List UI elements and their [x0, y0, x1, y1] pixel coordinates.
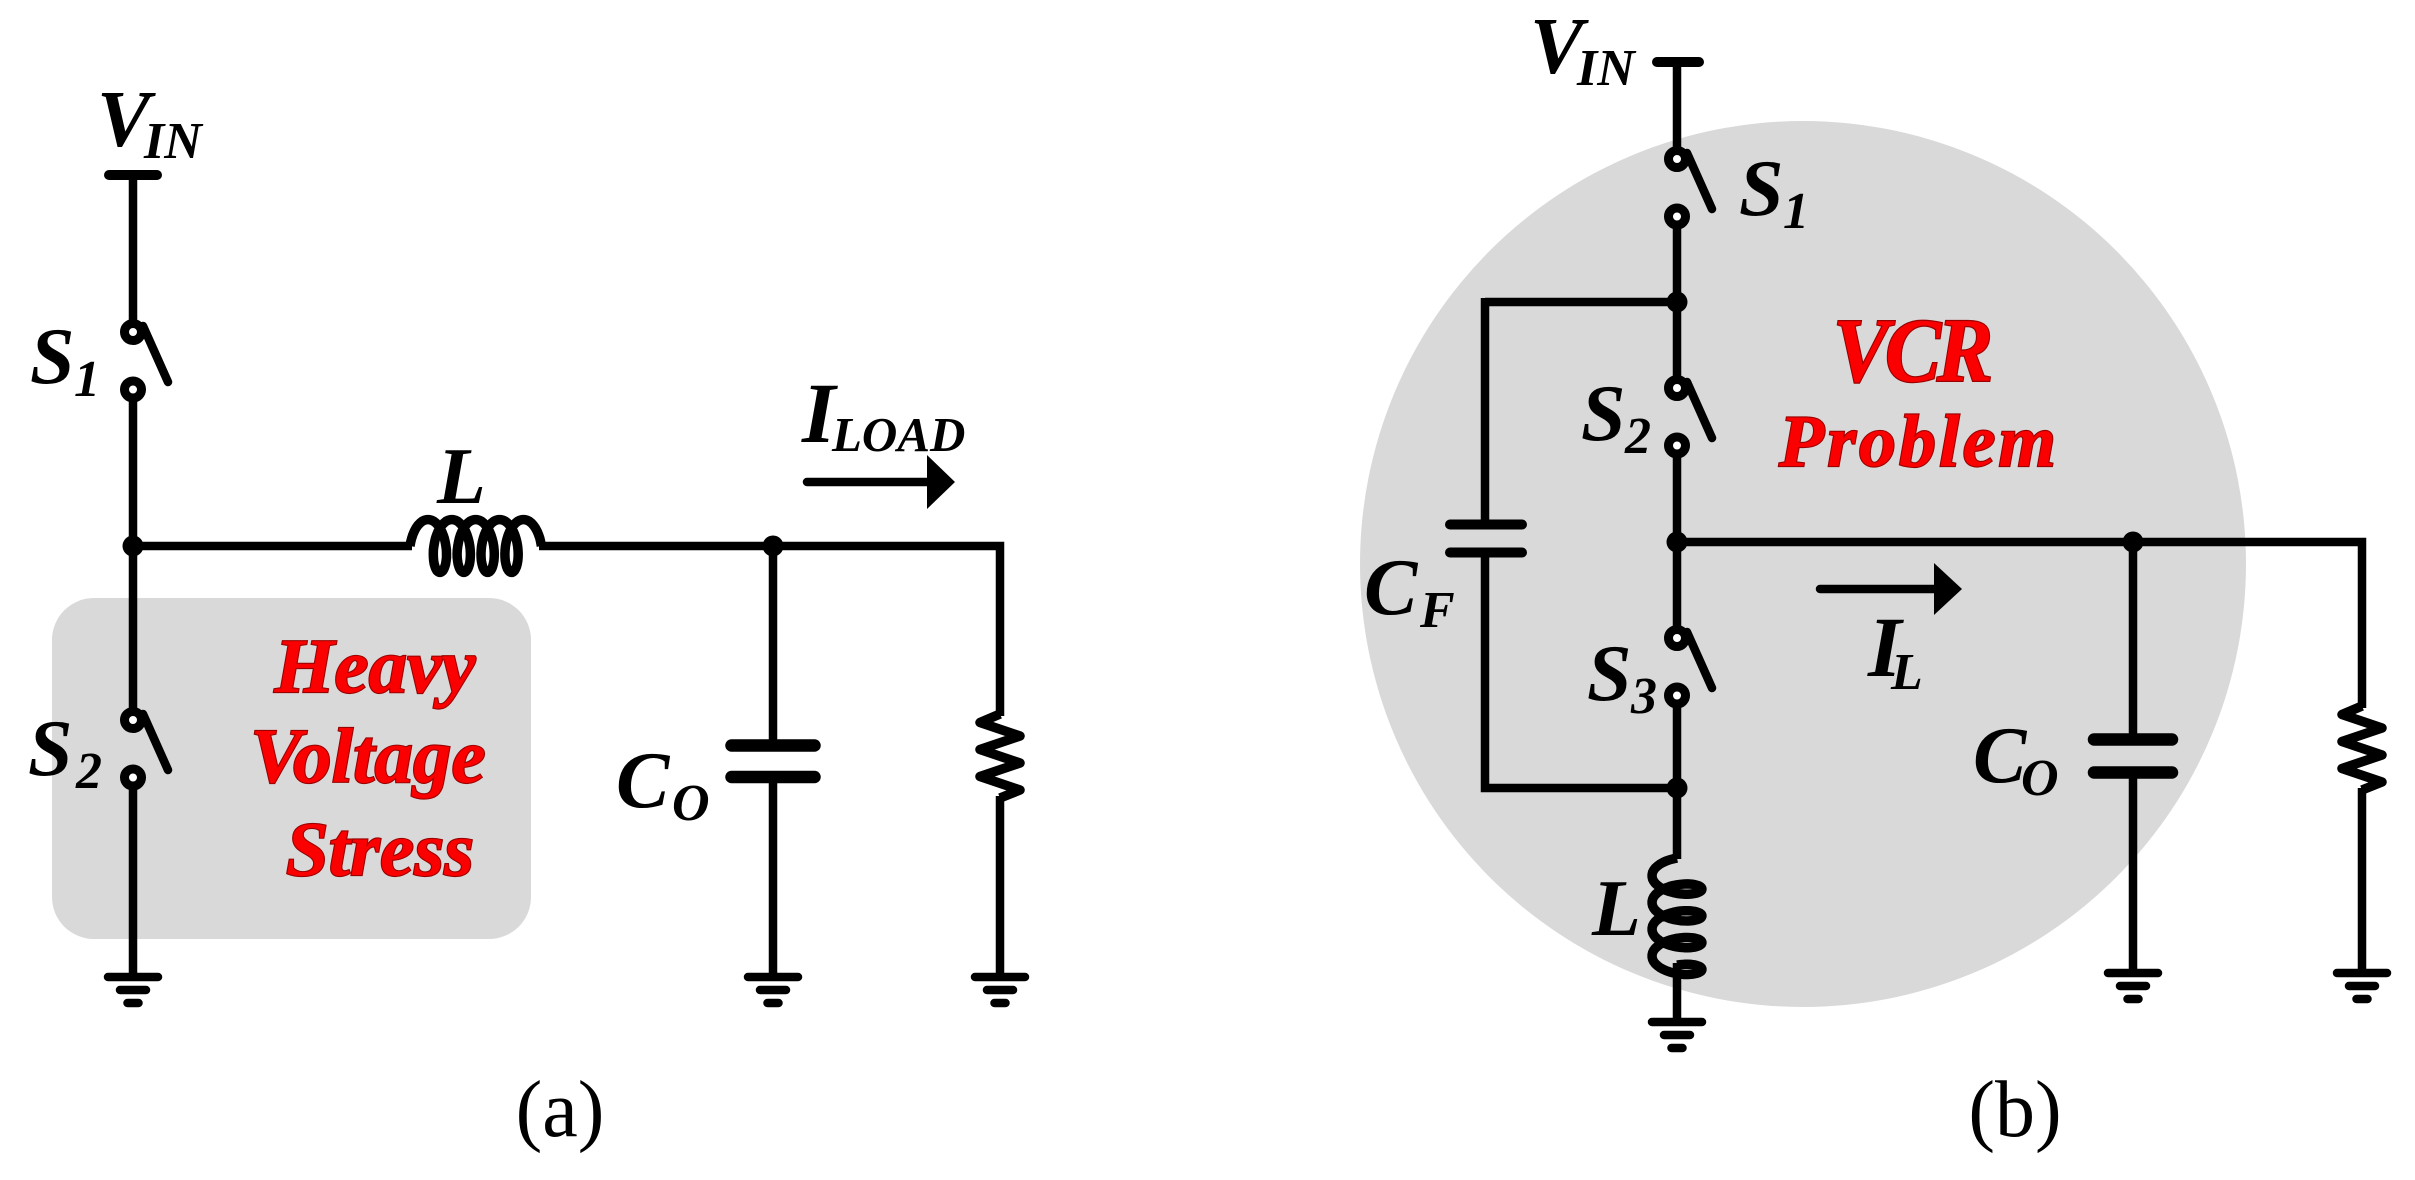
svg-text:S: S: [1587, 630, 1632, 718]
load resistor R (a): [980, 714, 1020, 798]
svg-text:F: F: [1419, 582, 1455, 639]
wire Cf bottom branch (b): [1485, 557, 1677, 788]
svg-text:(b): (b): [1968, 1066, 2061, 1154]
svg-text:(a): (a): [516, 1066, 605, 1154]
ground under L (b): [1652, 1018, 1702, 1027]
svg-text:Stress: Stress: [286, 806, 474, 892]
node A junction dot (b): [1667, 292, 1688, 313]
switch S1 (a): [143, 326, 168, 382]
svg-text:1: 1: [74, 351, 100, 408]
wire S2 to output node (b): [1673, 452, 1682, 546]
ground under R (b): [2337, 969, 2387, 978]
node LX junction dot (a): [123, 536, 144, 557]
ground under S2 (a): [108, 973, 158, 982]
svg-text:IN: IN: [1576, 40, 1637, 97]
svg-text:LOAD: LOAD: [831, 407, 965, 462]
wire Co branch (b): [2129, 542, 2138, 735]
wire Co to ground (a): [769, 782, 778, 975]
svg-text:O: O: [672, 775, 710, 832]
wire resistor to ground (b): [2358, 788, 2367, 971]
svg-text:Problem: Problem: [1778, 401, 2059, 483]
Iload arrow (a): [807, 478, 929, 487]
IL arrow (b): [1820, 585, 1936, 594]
wire Cf top branch (b): [1481, 298, 1490, 520]
output node junction dot (b): [1667, 532, 1688, 553]
svg-text:Voltage: Voltage: [250, 713, 485, 799]
switch S3 (b): [1687, 632, 1712, 688]
wire inductor to ground (b): [1673, 963, 1682, 1020]
wire S1 to node A (b): [1673, 223, 1682, 306]
svg-text:2: 2: [1624, 408, 1651, 465]
wire resistor to ground (a): [996, 796, 1005, 975]
capacitor Cf plates (b): [1450, 520, 1522, 530]
svg-text:S: S: [30, 313, 75, 401]
svg-text:L: L: [1591, 865, 1641, 953]
svg-text:VCR: VCR: [1833, 301, 1991, 402]
wire S2 to ground (a): [129, 784, 138, 975]
wire inductor to output node (a): [539, 542, 773, 551]
svg-text:S: S: [1739, 145, 1784, 233]
inductor L (b): [1652, 858, 1702, 975]
svg-text:2: 2: [75, 743, 102, 800]
load resistor R (b): [2342, 706, 2382, 790]
shaded stress region box (a): [52, 598, 531, 939]
ground under R (a): [975, 973, 1025, 982]
wire output node to S3 (b): [1673, 542, 1682, 630]
switch S2 (a): [143, 714, 168, 770]
wire output node to load corner (a): [773, 546, 1000, 716]
svg-text:O: O: [2021, 750, 2059, 807]
Vin terminal bar (a): [109, 170, 157, 180]
wire S1 to node LX (a): [129, 396, 138, 550]
wire node A to S2 (b): [1673, 302, 1682, 380]
svg-text:C: C: [1973, 712, 2028, 800]
wire S2 branch (a): [129, 546, 138, 712]
inductor L (a): [410, 520, 541, 573]
wire S3 to node B (b): [1673, 702, 1682, 792]
wire Co to ground (b): [2129, 778, 2138, 971]
ground under Co (b): [2108, 969, 2158, 978]
svg-text:L: L: [436, 433, 486, 521]
switch S2 (b): [1687, 382, 1712, 438]
svg-text:S: S: [28, 705, 73, 793]
switch S1 (b): [1687, 153, 1712, 209]
svg-text:L: L: [1890, 644, 1923, 701]
output node junction dot (a): [763, 536, 784, 557]
wire Vin to S1 (a): [129, 175, 138, 324]
wire output node down to capacitor Co (a): [769, 546, 778, 741]
output rail (b): [1677, 542, 2362, 708]
Co node junction dot (b): [2123, 532, 2144, 553]
svg-text:C: C: [1364, 544, 1419, 632]
svg-text:C: C: [616, 737, 671, 825]
svg-text:S: S: [1581, 370, 1626, 458]
svg-text:3: 3: [1630, 668, 1657, 725]
wire node B to inductor (b): [1673, 788, 1682, 859]
svg-text:1: 1: [1783, 183, 1809, 240]
Vin terminal bar (b): [1657, 57, 1699, 67]
capacitor Co plates (b): [2094, 733, 2172, 746]
wire Vin to S1 (b): [1673, 62, 1682, 151]
svg-text:IN: IN: [143, 113, 204, 170]
wire node LX to inductor (a): [133, 542, 412, 551]
ground under Co (a): [748, 973, 798, 982]
node B junction dot (b): [1667, 778, 1688, 799]
wire node A to Cf branch (b): [1485, 298, 1677, 307]
svg-text:Heavy: Heavy: [274, 623, 477, 709]
capacitor Co plates (a): [732, 739, 815, 752]
shaded VCR problem circle (b): [1360, 121, 2246, 1007]
